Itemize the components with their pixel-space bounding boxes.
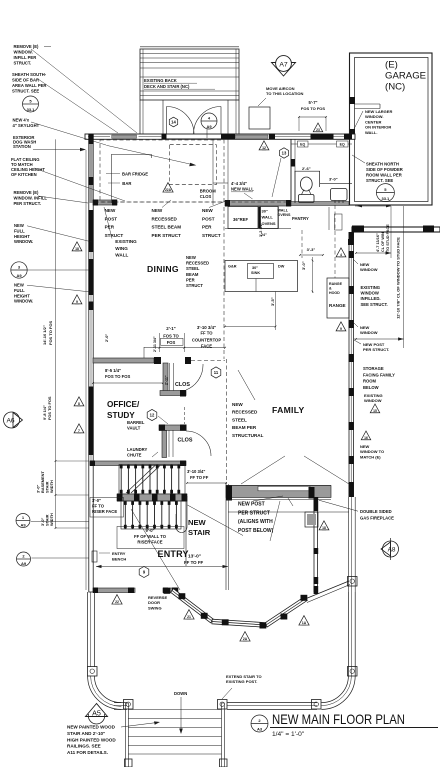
svg-text:HIGH PAINTED WOOD: HIGH PAINTED WOOD [67, 737, 116, 742]
svg-text:A6: A6 [6, 418, 14, 425]
svg-text:3'-0": 3'-0" [329, 177, 338, 182]
svg-text:FULL: FULL [14, 228, 25, 233]
svg-text:STEEL: STEEL [186, 266, 200, 271]
svg-text:HEIGHT: HEIGHT [14, 293, 30, 298]
svg-text:NEW MAIN FLOOR PLAN: NEW MAIN FLOOR PLAN [272, 711, 405, 727]
svg-text:2'-11": 2'-11" [165, 375, 169, 385]
svg-text:NEW PAINTED WOOD: NEW PAINTED WOOD [67, 725, 116, 730]
svg-text:A7: A7 [279, 61, 288, 68]
svg-text:OVENS: OVENS [278, 213, 291, 217]
svg-text:A9: A9 [206, 124, 212, 129]
svg-text:18: 18 [322, 526, 326, 530]
svg-text:&: & [329, 286, 332, 290]
svg-text:REMOVE (E): REMOVE (E) [14, 190, 39, 195]
svg-text:COUNTERTOP: COUNTERTOP [192, 338, 221, 343]
svg-text:WINDOW: WINDOW [360, 267, 378, 272]
svg-text:STRUCT. SEE: STRUCT. SEE [366, 178, 393, 183]
svg-text:GARAGE: GARAGE [385, 71, 426, 82]
svg-text:RAILINGS. SEE: RAILINGS. SEE [67, 744, 101, 749]
svg-text:POST: POST [202, 216, 215, 221]
svg-text:NEW WALL: NEW WALL [231, 187, 254, 192]
svg-text:LAUNDRY: LAUNDRY [127, 447, 148, 452]
svg-text:A9: A9 [16, 273, 22, 278]
svg-text:9'-0": 9'-0" [145, 528, 154, 533]
svg-text:18: 18 [75, 247, 79, 251]
svg-text:EQ: EQ [340, 143, 345, 147]
svg-text:STAIR: STAIR [188, 528, 211, 537]
svg-text:PER: PER [202, 225, 212, 230]
svg-text:WING: WING [115, 246, 128, 251]
svg-text:A9: A9 [20, 523, 26, 528]
svg-text:A3: A3 [257, 727, 263, 732]
svg-text:HEIGHT: HEIGHT [14, 234, 30, 239]
svg-text:A9: A9 [21, 561, 27, 566]
svg-text:1/4" = 1'-0": 1/4" = 1'-0" [272, 731, 305, 738]
svg-text:DW: DW [278, 265, 285, 269]
svg-text:WALL: WALL [115, 253, 128, 258]
svg-text:SEE STRUCT.: SEE STRUCT. [361, 302, 388, 307]
svg-text:EQ: EQ [300, 143, 305, 147]
svg-text:33.1: 33.1 [27, 107, 36, 112]
svg-text:RANGE: RANGE [329, 303, 346, 308]
svg-text:8'-5 1/4": 8'-5 1/4" [105, 368, 121, 373]
svg-text:BENCH: BENCH [112, 557, 126, 562]
svg-text:11: 11 [214, 370, 219, 375]
svg-text:OF KITCHEN: OF KITCHEN [11, 172, 37, 177]
svg-text:14'-10 1/2": 14'-10 1/2" [42, 325, 47, 345]
svg-text:30": 30" [262, 209, 268, 214]
svg-text:2'-1": 2'-1" [166, 326, 175, 331]
svg-text:13: 13 [282, 151, 287, 156]
svg-text:PER STRUCT: PER STRUCT [152, 233, 182, 238]
svg-text:9: 9 [76, 300, 78, 304]
svg-text:SINK: SINK [251, 271, 260, 275]
svg-text:WINDOW.: WINDOW. [14, 299, 33, 304]
svg-text:23: 23 [316, 128, 320, 132]
svg-text:ROOM: ROOM [363, 379, 377, 384]
svg-text:CLOS: CLOS [175, 382, 190, 388]
svg-text:FACING FAMILY: FACING FAMILY [363, 372, 395, 377]
svg-text:NEW: NEW [202, 208, 213, 213]
svg-text:EXISTING POST.: EXISTING POST. [226, 679, 257, 684]
svg-text:BELOW: BELOW [363, 385, 379, 390]
svg-text:AREA WALL PER: AREA WALL PER [12, 83, 46, 88]
svg-text:WIDTH: WIDTH [49, 513, 54, 526]
svg-text:3'-0": 3'-0" [301, 261, 306, 270]
svg-text:PER: PER [186, 277, 195, 282]
svg-text:RANGE: RANGE [329, 282, 343, 286]
svg-text:DECK AND STAIR (NC): DECK AND STAIR (NC) [144, 84, 190, 89]
svg-text:WINDOW.: WINDOW. [14, 239, 33, 244]
svg-text:STRUCT: STRUCT [186, 283, 203, 288]
svg-text:CL OF WIN: CL OF WIN [381, 232, 385, 252]
svg-text:(NC): (NC) [385, 82, 405, 93]
svg-text:22: 22 [115, 600, 119, 604]
svg-text:3'-10 3/4": 3'-10 3/4" [187, 469, 205, 474]
svg-text:WINDOW. INFILL: WINDOW. INFILL [14, 196, 48, 201]
svg-text:NEW POST: NEW POST [238, 502, 265, 508]
svg-text:BARREL: BARREL [127, 420, 145, 425]
svg-text:WINDOW: WINDOW [364, 398, 382, 403]
svg-text:STRUCTURAL: STRUCTURAL [232, 433, 264, 438]
svg-text:ROOM WALL PER: ROOM WALL PER [366, 173, 402, 178]
svg-text:FULL: FULL [14, 288, 25, 293]
svg-text:FF OF WALL TO: FF OF WALL TO [134, 534, 167, 539]
svg-text:RECESSED: RECESSED [152, 216, 178, 221]
svg-text:2'-0": 2'-0" [105, 334, 109, 342]
svg-text:TO THIS LOCATION: TO THIS LOCATION [266, 91, 304, 96]
svg-text:13'-0": 13'-0" [188, 554, 201, 560]
svg-text:FOS TO FOS: FOS TO FOS [48, 321, 53, 345]
svg-text:(ALIGNS WITH: (ALIGNS WITH [238, 519, 273, 525]
svg-text:NEW: NEW [188, 518, 207, 527]
svg-text:SHEATH SOUTH-: SHEATH SOUTH- [12, 72, 47, 77]
svg-text:12: 12 [150, 413, 155, 418]
svg-text:CLOS: CLOS [200, 194, 212, 199]
svg-text:9: 9 [340, 327, 342, 331]
svg-text:16: 16 [364, 436, 368, 440]
svg-text:22A: 22A [165, 188, 172, 192]
svg-text:A5: A5 [92, 709, 101, 718]
svg-text:STEEL BEAM: STEEL BEAM [152, 225, 182, 230]
svg-text:INFILL PER: INFILL PER [14, 55, 37, 60]
svg-text:WIDTH: WIDTH [49, 480, 54, 493]
svg-text:12: 12 [262, 146, 266, 150]
svg-text:GAS FIREPLACE: GAS FIREPLACE [360, 516, 394, 521]
svg-text:12'-10 7/8" CL OF WINDOW TO S: 12'-10 7/8" CL OF WINDOW TO STUD FACE [396, 237, 401, 319]
svg-text:PER STRUCT.: PER STRUCT. [363, 347, 389, 352]
svg-text:4'-7 13/16": 4'-7 13/16" [376, 233, 380, 252]
svg-text:7: 7 [78, 429, 80, 433]
svg-text:30": 30" [252, 266, 258, 270]
svg-text:8: 8 [78, 402, 80, 406]
svg-text:EXISTING: EXISTING [115, 239, 137, 244]
svg-text:SIDE OF POWDER: SIDE OF POWDER [366, 167, 403, 172]
svg-text:3'-3": 3'-3" [307, 247, 316, 252]
svg-text:4: 4 [340, 253, 342, 257]
svg-text:STUDY: STUDY [107, 411, 135, 420]
svg-text:NEW: NEW [14, 223, 24, 228]
svg-text:PER STRUCT: PER STRUCT [238, 510, 270, 516]
svg-text:STEEL: STEEL [232, 417, 247, 422]
svg-text:15: 15 [373, 409, 377, 413]
svg-text:14: 14 [171, 120, 176, 125]
svg-text:BEAM: BEAM [186, 272, 199, 277]
svg-text:STRUCT.: STRUCT. [14, 61, 32, 66]
svg-text:FF TO: FF TO [200, 330, 213, 335]
svg-text:FF TO: FF TO [92, 503, 105, 508]
svg-text:STORAGE: STORAGE [363, 366, 384, 371]
svg-text:OFFICE/: OFFICE/ [107, 400, 140, 409]
svg-text:ENTRY: ENTRY [112, 551, 126, 556]
svg-text:FAMILY: FAMILY [272, 405, 305, 415]
svg-text:3'-0": 3'-0" [92, 498, 101, 503]
svg-text:BROOM: BROOM [200, 189, 217, 194]
svg-text:4'-4 3/4": 4'-4 3/4" [231, 181, 247, 186]
svg-text:WINDOW: WINDOW [360, 330, 378, 335]
svg-text:BEAM PER: BEAM PER [232, 425, 257, 430]
svg-text:1A: 1A [302, 621, 307, 625]
svg-text:WALL.: WALL. [365, 130, 377, 135]
svg-text:2'-11 3/4": 2'-11 3/4" [153, 336, 157, 352]
svg-text:CLOS: CLOS [178, 438, 193, 444]
svg-text:REMOVE (E): REMOVE (E) [14, 44, 39, 49]
svg-text:FF TO FF: FF TO FF [184, 560, 204, 565]
svg-text:OVENS: OVENS [262, 221, 276, 226]
svg-text:WINDOW: WINDOW [361, 291, 379, 296]
svg-text:NEW: NEW [152, 208, 163, 213]
svg-text:NEW: NEW [186, 255, 196, 260]
svg-text:TO STUD FACE: TO STUD FACE [386, 224, 390, 252]
svg-text:STAIR AND 2'-10": STAIR AND 2'-10" [67, 731, 105, 736]
svg-text:A8: A8 [388, 547, 396, 554]
svg-text:3'-5": 3'-5" [270, 297, 275, 306]
svg-text:3'-10 3/4": 3'-10 3/4" [197, 325, 216, 330]
svg-text:EXISTING: EXISTING [361, 285, 381, 290]
svg-text:SWING: SWING [148, 605, 162, 610]
svg-text:NEW: NEW [105, 208, 116, 213]
svg-text:2'-6": 2'-6" [302, 166, 311, 171]
svg-text:RECESSED: RECESSED [186, 261, 209, 266]
svg-text:36"REF: 36"REF [233, 217, 248, 222]
svg-text:DINING: DINING [147, 264, 179, 274]
svg-text:A11 FOR DETAILS.: A11 FOR DETAILS. [67, 750, 108, 755]
svg-text:33.1: 33.1 [382, 196, 391, 201]
svg-text:INFILLED.: INFILLED. [361, 296, 381, 301]
svg-text:SIDE OF BAR: SIDE OF BAR [12, 78, 39, 83]
svg-text:EXISTING BACK: EXISTING BACK [144, 78, 177, 83]
svg-text:BAR FRIDGE: BAR FRIDGE [122, 172, 148, 177]
svg-text:VAULT: VAULT [127, 426, 141, 431]
svg-text:RECESSED: RECESSED [232, 410, 258, 415]
svg-text:NEW 4'x: NEW 4'x [13, 118, 30, 123]
svg-text:STATION: STATION [13, 144, 31, 149]
svg-text:FOS TO FOS: FOS TO FOS [47, 396, 52, 420]
svg-text:WINDOW.: WINDOW. [14, 50, 33, 55]
svg-text:3'-2 1/2": 3'-2 1/2" [259, 222, 263, 237]
svg-text:DOUBLE SIDED: DOUBLE SIDED [360, 509, 392, 514]
svg-text:WALL: WALL [262, 215, 274, 220]
svg-text:NEW: NEW [232, 402, 243, 407]
svg-text:CHUTE: CHUTE [127, 452, 142, 457]
svg-text:STRUCT: STRUCT [105, 233, 124, 238]
svg-text:POST BELOW): POST BELOW) [238, 528, 274, 534]
svg-text:DOWN: DOWN [174, 691, 187, 696]
svg-text:ENTRY: ENTRY [158, 549, 189, 559]
svg-text:FF TO FF: FF TO FF [190, 475, 209, 480]
svg-text:FOS TO FOS: FOS TO FOS [105, 374, 130, 379]
svg-text:(E): (E) [385, 60, 398, 71]
svg-text:2A: 2A [243, 637, 248, 641]
svg-text:HOOD: HOOD [329, 291, 340, 295]
svg-text:5'-7": 5'-7" [308, 100, 317, 105]
svg-text:FOS TO: FOS TO [163, 333, 179, 338]
svg-text:PANTRY: PANTRY [292, 216, 309, 221]
svg-text:FOS: FOS [167, 340, 176, 345]
svg-text:WALL: WALL [278, 209, 289, 213]
svg-text:21: 21 [187, 615, 191, 619]
svg-text:STRUCT: STRUCT [202, 233, 221, 238]
svg-text:BAR: BAR [122, 181, 131, 186]
svg-text:G&R: G&R [228, 265, 237, 269]
svg-text:NEW: NEW [14, 283, 24, 288]
svg-text:PER STRUCT.: PER STRUCT. [14, 201, 41, 206]
svg-text:RISER FACE: RISER FACE [92, 509, 117, 514]
svg-text:MATCH (E): MATCH (E) [360, 454, 381, 459]
svg-text:STRUCT. SEE: STRUCT. SEE [12, 89, 39, 94]
svg-text:4" SKYLIGHT: 4" SKYLIGHT [13, 123, 40, 128]
svg-text:FOS TO FOS: FOS TO FOS [301, 106, 325, 111]
svg-text:SHEATH NORTH: SHEATH NORTH [366, 162, 399, 167]
